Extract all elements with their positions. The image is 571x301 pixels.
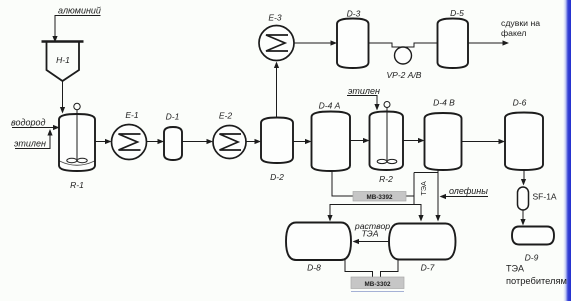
svg-text:D-4 В: D-4 В: [433, 98, 455, 108]
svg-text:алюминий: алюминий: [58, 6, 101, 16]
svg-text:МВ-3392: МВ-3392: [367, 194, 393, 201]
svg-text:R-2: R-2: [379, 174, 393, 184]
svg-text:водород: водород: [11, 118, 45, 128]
svg-text:факел: факел: [501, 28, 527, 38]
svg-text:Н-1: Н-1: [56, 55, 70, 65]
svg-text:этилен: этилен: [14, 139, 46, 149]
svg-text:ТЭА: ТЭА: [419, 181, 428, 196]
svg-text:D-3: D-3: [347, 9, 361, 19]
svg-text:D-4 А: D-4 А: [319, 101, 341, 111]
svg-text:VP-2 А/В: VP-2 А/В: [387, 70, 422, 80]
svg-text:SF-1А: SF-1А: [533, 192, 557, 202]
svg-text:потребителям: потребителям: [506, 276, 567, 286]
svg-text:ТЭА: ТЭА: [361, 229, 378, 239]
svg-text:D-6: D-6: [513, 98, 527, 108]
svg-text:ТЭА: ТЭА: [506, 264, 524, 274]
svg-text:сдувки на: сдувки на: [501, 18, 540, 28]
svg-text:D-8: D-8: [307, 263, 321, 273]
svg-text:Е-1: Е-1: [125, 110, 139, 120]
svg-text:МВ-3302: МВ-3302: [365, 281, 391, 288]
svg-text:D-1: D-1: [166, 112, 180, 122]
svg-text:олефины: олефины: [449, 186, 488, 196]
svg-text:R-1: R-1: [70, 180, 84, 190]
svg-text:Е-3: Е-3: [268, 13, 282, 23]
svg-text:D-9: D-9: [525, 253, 539, 263]
svg-text:D-7: D-7: [421, 263, 435, 273]
svg-text:этилен: этилен: [348, 86, 380, 96]
svg-text:D-5: D-5: [450, 8, 464, 18]
svg-text:Е-2: Е-2: [219, 111, 233, 121]
svg-text:D-2: D-2: [270, 172, 284, 182]
